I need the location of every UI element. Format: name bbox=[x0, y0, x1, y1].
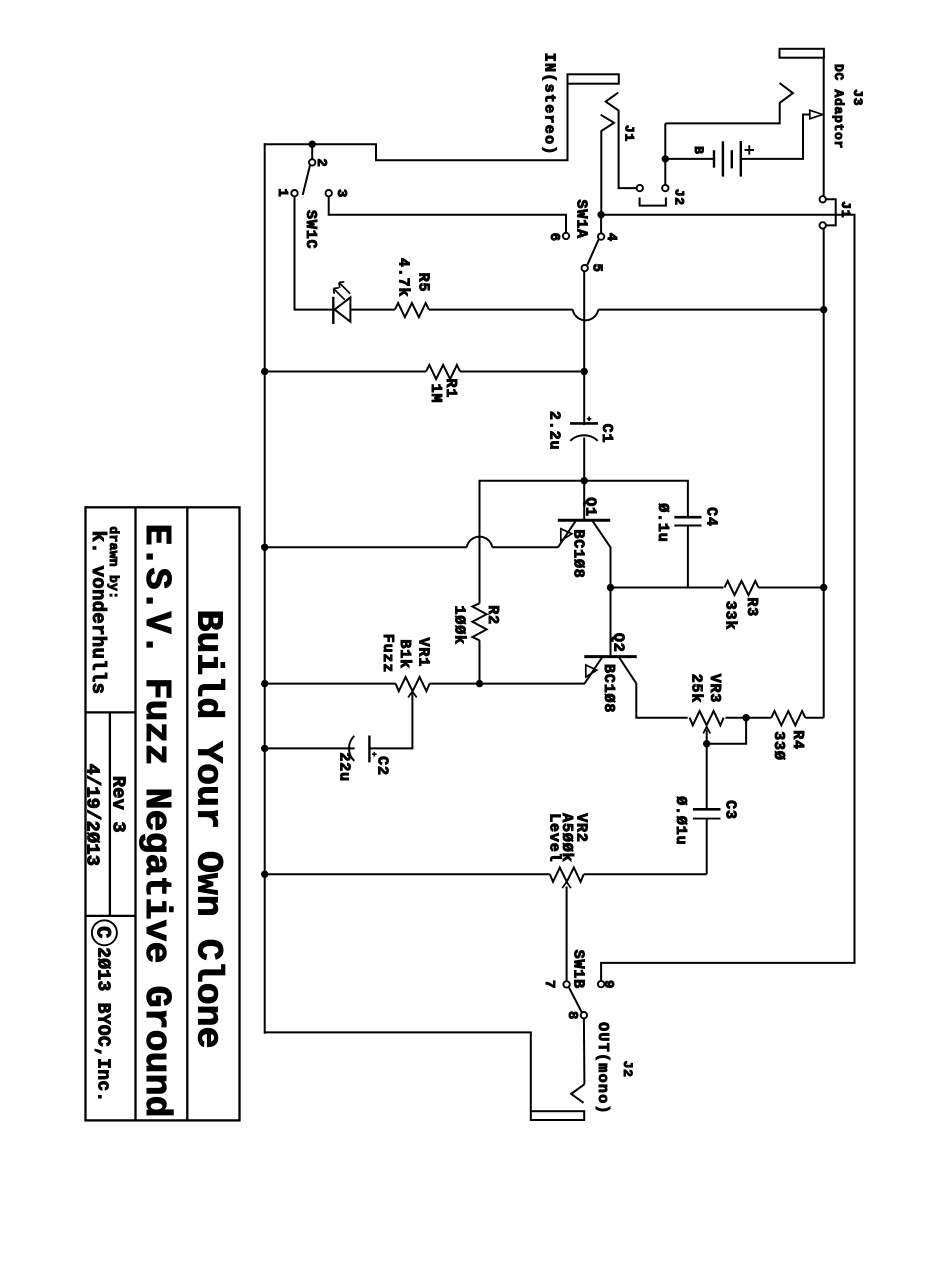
node junction dot rail/C2 bbox=[261, 745, 268, 752]
wire input net: J1 tip to right rail down to SW1B pin9 bbox=[601, 215, 854, 982]
svg-text:6: 6 bbox=[546, 233, 562, 242]
transistor Q1 BC108 bbox=[558, 519, 610, 522]
svg-text:J2: J2 bbox=[672, 189, 687, 206]
wire C2 left to rail bbox=[265, 747, 355, 749]
wire VR1 left bbox=[265, 683, 396, 685]
svg-text:Q1: Q1 bbox=[582, 497, 599, 517]
wire C3 bottom to VR2 wire bbox=[706, 819, 708, 875]
svg-text:Ø.Ø1u: Ø.Ø1u bbox=[672, 796, 689, 845]
connector J1 (battery snap) bbox=[820, 196, 826, 202]
capacitor C2 22u electrolytic bbox=[349, 736, 354, 761]
svg-text:Q2: Q2 bbox=[610, 633, 627, 653]
resistor R5 4.7k bbox=[395, 303, 429, 317]
resistor R3 33k bbox=[725, 581, 759, 595]
wire VR2 line bbox=[265, 873, 550, 875]
wire SW1C pin3 to SW1A pin6 bbox=[329, 197, 566, 233]
node junction dot Q1 collector / Q2 base bbox=[607, 584, 614, 591]
svg-text:1M: 1M bbox=[427, 384, 444, 404]
svg-text:BC1Ø8: BC1Ø8 bbox=[570, 529, 587, 578]
svg-text:22u: 22u bbox=[335, 752, 352, 782]
node junction dot VR3/R4/wiper bbox=[742, 714, 749, 721]
svg-text:Level: Level bbox=[545, 813, 562, 862]
node junction dot V+ rail / LED wire bbox=[820, 306, 827, 313]
svg-text:VR3: VR3 bbox=[706, 674, 723, 704]
svg-text:2.2u: 2.2u bbox=[546, 411, 563, 450]
svg-text:C4: C4 bbox=[702, 507, 719, 527]
node junction dot R1/C1 bbox=[581, 368, 588, 375]
node junction dot rail/R1 bbox=[261, 368, 268, 375]
resistor R2 100k bbox=[472, 603, 486, 640]
svg-text:B1k: B1k bbox=[396, 639, 413, 669]
capacitor C4 0.1u bbox=[674, 516, 701, 519]
svg-text:2Ø13 BYOC,Inc.: 2Ø13 BYOC,Inc. bbox=[93, 947, 113, 1102]
svg-text:1: 1 bbox=[274, 188, 290, 197]
svg-text:7: 7 bbox=[541, 980, 557, 989]
wire VR3 to R4 junction bbox=[726, 717, 772, 719]
potentiometer VR3 25k bbox=[690, 711, 724, 725]
svg-text:J3: J3 bbox=[850, 89, 865, 106]
wire R5 to hop bbox=[429, 309, 573, 311]
resistor R4 330 bbox=[771, 711, 805, 725]
svg-text:B: B bbox=[691, 146, 706, 155]
wire C4 bottom lead bbox=[687, 526, 689, 588]
capacitor C1 2.2u electrolytic bbox=[570, 422, 598, 425]
title text copyright bbox=[92, 920, 117, 945]
node junction dot rail/VR1 bbox=[261, 680, 268, 687]
node junction dot rail/R3 bbox=[820, 584, 827, 591]
svg-text:4.7k: 4.7k bbox=[394, 258, 411, 297]
title block frame bbox=[86, 507, 240, 1120]
node junction dot SW1C pin2 tap bbox=[309, 141, 316, 148]
wire bottom: J2 sleeve to left rail bbox=[265, 1032, 531, 1111]
switch SW1A bbox=[563, 233, 569, 239]
svg-text:DC Adaptor: DC Adaptor bbox=[831, 64, 846, 149]
svg-text:SW1A: SW1A bbox=[572, 200, 589, 239]
svg-text:8: 8 bbox=[564, 1011, 580, 1020]
wire SW1B pin8 to J2 tip bbox=[583, 1019, 586, 1085]
capacitor C3 0.01u bbox=[693, 808, 721, 811]
connector J2 (battery snap to jacks) bbox=[637, 185, 643, 191]
svg-text:R4: R4 bbox=[789, 730, 806, 750]
wire SW1C pin2 stub bbox=[311, 144, 313, 159]
jack J2 OUT(mono) bbox=[531, 1111, 584, 1120]
node junction dot wiper/C3 bbox=[703, 740, 710, 747]
svg-text:33Ø: 33Ø bbox=[770, 731, 787, 761]
svg-text:J1: J1 bbox=[622, 125, 637, 142]
resistor R1 1M bbox=[426, 365, 460, 379]
wire hop over SW1A.5 vertical bbox=[573, 310, 599, 321]
svg-text:Ø.1u: Ø.1u bbox=[654, 503, 671, 542]
svg-text:R2: R2 bbox=[484, 605, 501, 625]
wire VR2 wiper to SW1B pin7 bbox=[566, 887, 568, 982]
svg-text:R3: R3 bbox=[743, 597, 760, 617]
potentiometer VR1 B1k Fuzz bbox=[396, 677, 430, 691]
svg-text:3: 3 bbox=[333, 189, 349, 198]
svg-text:33k: 33k bbox=[721, 601, 738, 631]
svg-text:R5: R5 bbox=[415, 273, 432, 293]
node junction dot rail/Q1 emitter bbox=[261, 544, 268, 551]
wire VR3 wiper L to C3 bbox=[707, 718, 746, 744]
svg-text:Build Your Own Clone: Build Your Own Clone bbox=[188, 610, 229, 1049]
svg-text:5: 5 bbox=[588, 264, 604, 273]
wire Q1 emitter line with hop bbox=[265, 546, 467, 548]
wire Q2 collector to VR3 bbox=[636, 683, 687, 717]
transistor Q2 BC108 bbox=[584, 655, 636, 658]
svg-text:Fuzz: Fuzz bbox=[379, 634, 396, 673]
svg-text:Rev 3: Rev 3 bbox=[108, 776, 129, 833]
svg-text:9: 9 bbox=[600, 980, 616, 989]
svg-text:E.S.V. Fuzz Negative Ground: E.S.V. Fuzz Negative Ground bbox=[136, 524, 177, 1118]
svg-text:C2: C2 bbox=[373, 756, 390, 776]
wire LED to R5 bbox=[350, 309, 395, 311]
svg-text:C: C bbox=[91, 926, 114, 938]
wire C3 top lead bbox=[706, 744, 708, 810]
wire SW1A pin4 stub bbox=[600, 215, 602, 234]
wire SW1C pin1 to LED bbox=[294, 197, 296, 310]
wire hop to V+ rail bbox=[598, 309, 823, 311]
wire R1 left bbox=[265, 371, 426, 373]
jack J3 DC Adaptor bbox=[780, 49, 824, 58]
wire C1 bottom to Q1 base bbox=[583, 438, 585, 520]
switch SW1C bbox=[309, 159, 315, 165]
svg-text:VR1: VR1 bbox=[415, 638, 432, 668]
svg-text:4: 4 bbox=[603, 233, 619, 242]
node junction dot rail/VR2 bbox=[261, 871, 268, 878]
svg-text:C1: C1 bbox=[598, 424, 615, 444]
wire V+ rail (right) bbox=[823, 229, 825, 718]
wire feedback top: Q1 base to C4 bbox=[480, 481, 688, 604]
wire Q1 collector node to R3 bbox=[611, 587, 724, 589]
wire R2 bottom bbox=[479, 640, 481, 683]
switch SW1B bbox=[563, 981, 569, 987]
wire Q2 base lead bbox=[610, 588, 612, 656]
svg-text:SW1B: SW1B bbox=[569, 950, 586, 989]
wire VR3 wiper shaft bbox=[706, 730, 708, 744]
svg-text:4/19/2Ø13: 4/19/2Ø13 bbox=[82, 764, 103, 867]
svg-text:SW1C: SW1C bbox=[302, 210, 319, 249]
wire top: rail to J1 sleeve bbox=[264, 84, 568, 160]
svg-text:J1: J1 bbox=[838, 201, 853, 218]
wire VR1 wiper to C2 bbox=[370, 693, 413, 749]
svg-text:1ØØk: 1ØØk bbox=[451, 606, 468, 645]
svg-text:OUT(mono): OUT(mono) bbox=[594, 1022, 611, 1115]
wire VR1 right to Q2 emitter bbox=[430, 683, 585, 685]
jack J1 IN(stereo) bbox=[568, 74, 619, 83]
potentiometer VR2 A500k Level bbox=[550, 868, 584, 882]
svg-text:k. vonderhulls: k. vonderhulls bbox=[87, 531, 109, 695]
svg-text:BC1Ø8: BC1Ø8 bbox=[600, 664, 617, 713]
battery B bbox=[664, 123, 666, 184]
wire R4 to V+ rail corner bbox=[805, 717, 823, 719]
svg-text:2: 2 bbox=[313, 158, 329, 167]
wire SW1A.5 down to Q1 base net bbox=[583, 271, 585, 425]
node junction dot Q1 base / feedback bbox=[581, 477, 588, 484]
svg-text:IN(stereo): IN(stereo) bbox=[541, 53, 558, 156]
wire ground/top net: left rail bbox=[264, 143, 266, 1034]
svg-text:C3: C3 bbox=[722, 800, 739, 820]
node junction dot R2/VR1 wire bbox=[476, 680, 483, 687]
wire R1 right bbox=[460, 371, 584, 373]
LED bbox=[332, 297, 334, 324]
svg-text:J2: J2 bbox=[620, 1061, 635, 1078]
node junction dot J1 tip / SW1A.4 bbox=[597, 211, 604, 218]
svg-text:25k: 25k bbox=[688, 674, 705, 704]
node junction dot battery minus bbox=[662, 155, 669, 162]
wire R3 to V+ rail bbox=[759, 587, 824, 589]
